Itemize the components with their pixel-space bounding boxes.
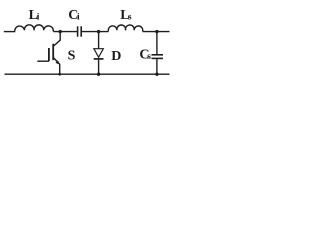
inductor L_i xyxy=(15,25,54,32)
transistor S emitter arrowhead xyxy=(56,60,61,64)
inductor L_s xyxy=(108,25,142,32)
transistor S channel bar xyxy=(52,44,54,60)
svg-text:D: D xyxy=(111,49,121,64)
node: junction dot top of capacitor C_s xyxy=(155,30,158,33)
capacitor C_i xyxy=(77,26,79,36)
node: junction dot bottom of diode xyxy=(97,73,100,76)
wire top-left input xyxy=(4,31,15,33)
svg-text:s: s xyxy=(128,12,132,22)
node: junction dot bottom of capacitor C_s xyxy=(155,73,158,76)
capacitor C_s top wire xyxy=(156,32,158,55)
capacitor C_s plates xyxy=(152,54,164,56)
svg-text:s: s xyxy=(147,52,151,62)
transistor S emitter lead with arrow xyxy=(53,57,60,74)
transistor S gate bar xyxy=(48,48,50,61)
wire L_s to right edge xyxy=(143,31,170,33)
wire L_i to C_i xyxy=(53,31,77,33)
wire bottom rail xyxy=(5,73,170,75)
wire C_i to L_s xyxy=(81,31,108,33)
capacitor C_s bottom wire xyxy=(156,58,158,74)
transistor Q (IGBT switch S): collector lead xyxy=(53,32,60,47)
diode D triangle xyxy=(94,49,103,58)
transistor S gate lead wire xyxy=(37,60,49,62)
diode D cathode bar xyxy=(94,58,104,60)
svg-text:i: i xyxy=(77,13,80,23)
svg-text:i: i xyxy=(37,13,40,23)
node: junction dot top of diode D xyxy=(97,30,100,33)
node: small junction dot bottom of switch xyxy=(58,73,61,76)
diode D anode wire xyxy=(98,32,100,49)
svg-text:S: S xyxy=(68,49,76,64)
node: junction dot top of switch S xyxy=(59,30,62,33)
diode D cathode wire xyxy=(98,59,100,74)
